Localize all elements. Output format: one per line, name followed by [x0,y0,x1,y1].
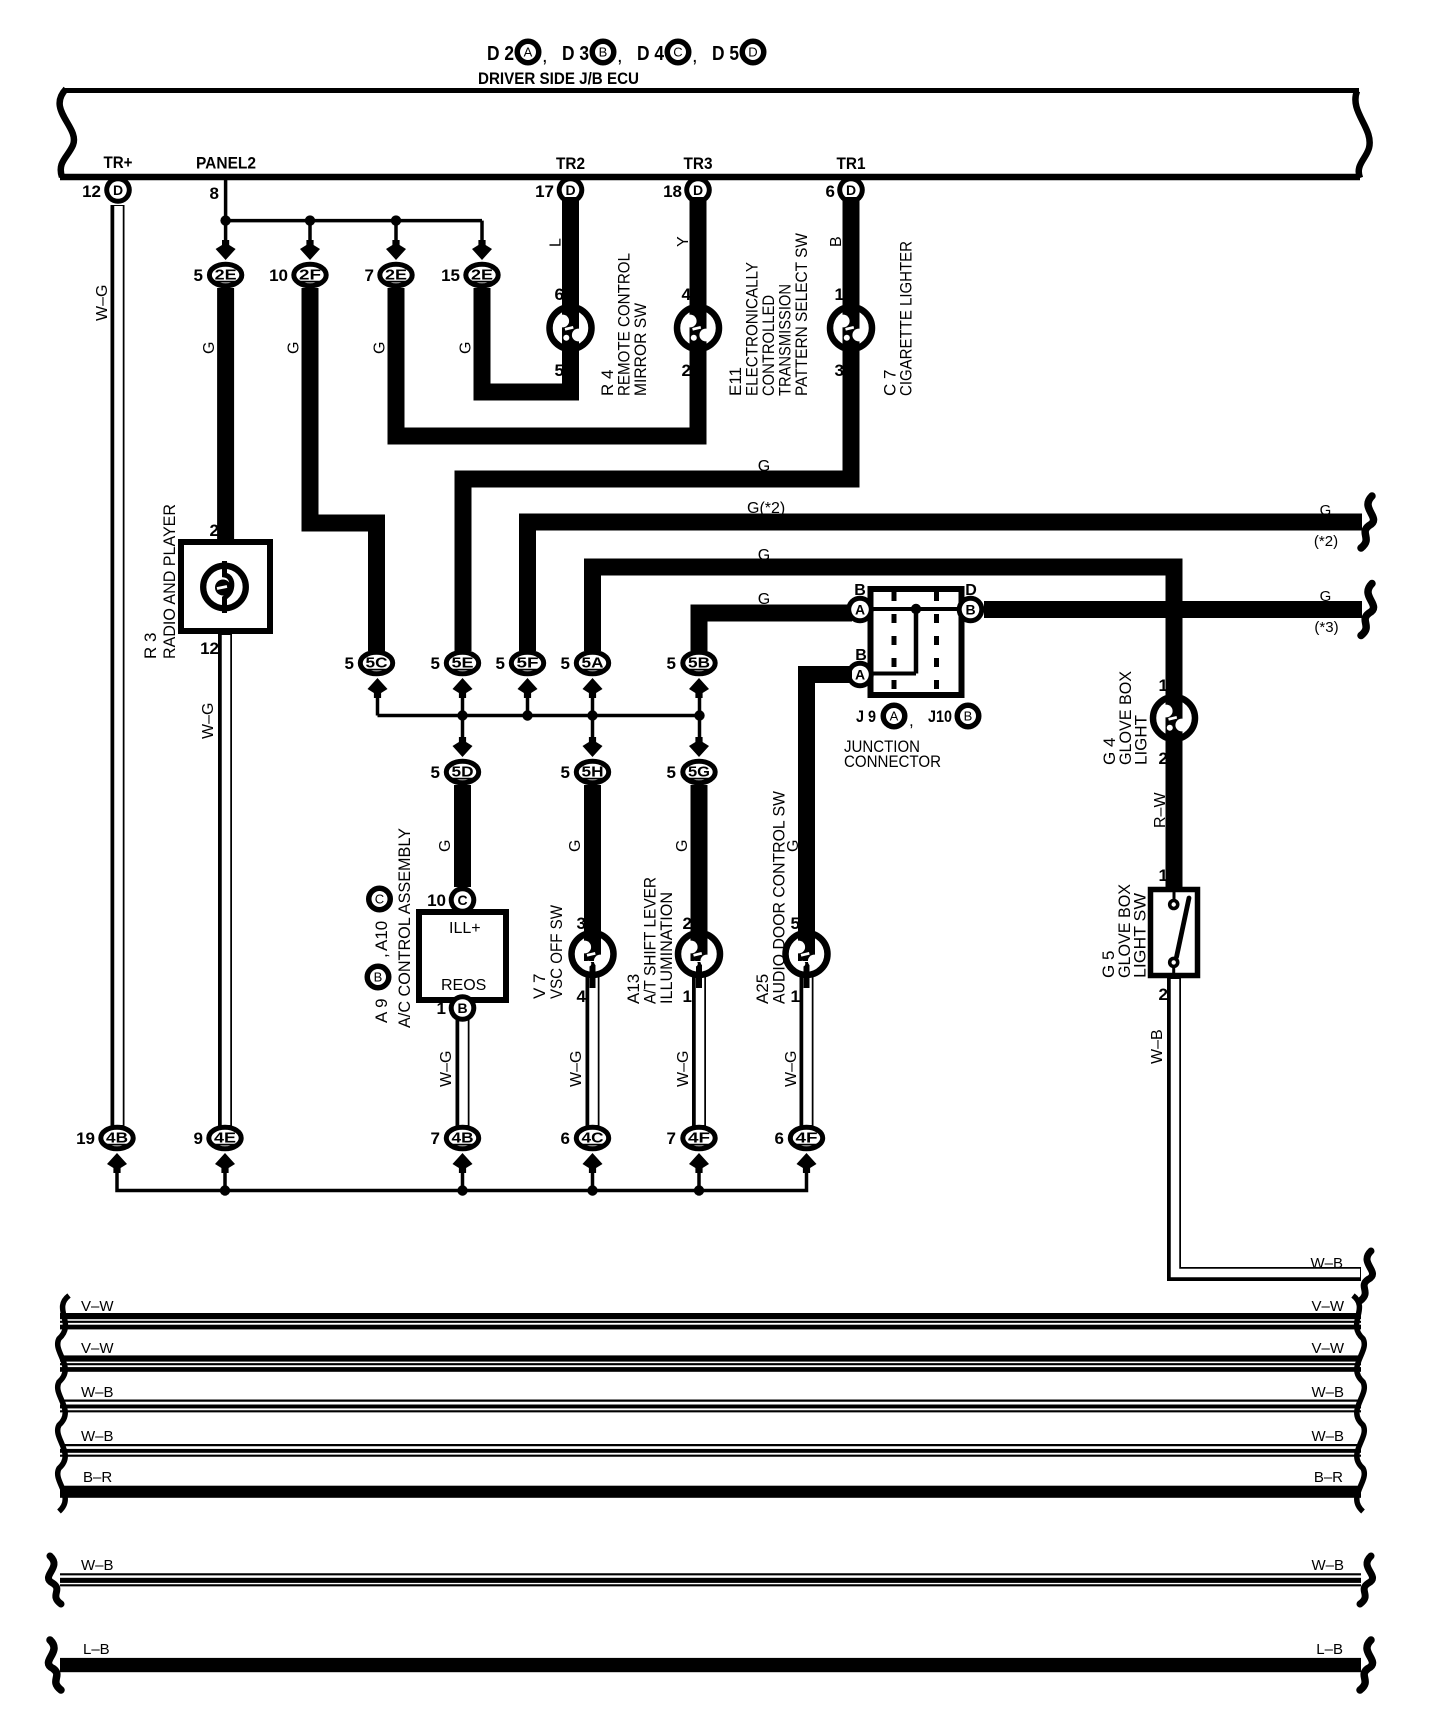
svg-text:5: 5 [561,654,570,673]
right break of G(*2) wire [1361,496,1374,548]
svg-text:4: 4 [682,285,692,304]
wire label B-R row5 left [83,1469,112,1486]
label A25 AUDIO DOOR CONTROL SW [753,791,789,1004]
wire from R4 pin5 to 15 2E [482,288,571,392]
wire label W-B row4 left [81,1428,114,1445]
pin 2 of A13 [683,914,692,933]
svg-text:6: 6 [561,1129,570,1148]
pin 6 of R4 [555,285,564,304]
svg-text:5: 5 [496,654,505,673]
wire label L-B row7 right [1316,1641,1343,1658]
label A/C CONTROL ASSEMBLY [395,828,414,1028]
bulb G4 glove box light [1153,692,1195,744]
svg-text:A/C CONTROL ASSEMBLY: A/C CONTROL ASSEMBLY [395,828,414,1028]
svg-text:D 4: D 4 [637,43,665,65]
svg-text:ILL+: ILL+ [449,920,481,937]
svg-text:12: 12 [200,639,219,658]
DRIVER SIDE J/B ECU box (band with torn ends) [60,89,1370,178]
connector 9 4E [194,1127,242,1149]
pin 1 B of A/C assembly [437,994,477,1022]
svg-text:W–B: W–B [1310,1255,1343,1272]
wire color label R-W [1152,792,1169,828]
left break of wire bundle rows1-5 [58,1296,69,1512]
wire G from 5A to glove box light [593,567,1175,696]
wire R-W from G4 to G5 [1166,740,1183,889]
wire G from C7 pin3 to 5E [463,345,851,651]
junction dot bottom bus 4B [457,1185,467,1195]
connector 19 4B [76,1127,133,1149]
connector 7 2E [365,264,413,286]
svg-text:A: A [855,602,865,618]
bus stub down to 5H [583,716,603,758]
wire color label G at right (*2) [1314,502,1338,550]
svg-text:17: 17 [535,182,554,201]
label C7 CIGARETTE LIGHTER [881,241,916,396]
svg-text:5: 5 [345,654,354,673]
svg-text:15: 15 [441,266,460,285]
wire Y from TR3 to E11 [690,197,707,310]
pin 10 C of A/C assembly [427,886,476,914]
connector 7 4B [431,1127,479,1149]
svg-text:G: G [674,840,691,852]
svg-text:TR3: TR3 [684,154,713,173]
svg-text:1: 1 [437,999,446,1018]
label A9 B A10 C rotated [367,888,391,1023]
wire color label Y (TR3 column) [675,236,692,247]
band pin 6 D (TR1) [826,176,865,204]
svg-text:10: 10 [269,266,288,285]
svg-text:CONNECTOR: CONNECTOR [844,752,941,771]
svg-text:TR2: TR2 [556,154,585,173]
svg-text:W–B: W–B [1311,1384,1344,1401]
connector 6 4F [775,1127,823,1149]
label V7 VSC OFF SW [530,905,566,999]
svg-text:10: 10 [427,891,446,910]
pin 5 of R4 [555,361,564,380]
svg-text:C: C [375,892,384,907]
band pin TR2 label [556,154,585,173]
svg-text:MIRROR SW: MIRROR SW [631,303,650,396]
bottom thin bus wire [117,1169,807,1191]
svg-text:RADIO AND PLAYER: RADIO AND PLAYER [160,504,179,659]
svg-text:B: B [965,602,975,618]
wire W-B from G5 to right edge [1174,978,1361,1274]
arrow into 5E [453,678,473,698]
arrow into 7 4B [453,1153,473,1173]
svg-text:D: D [565,182,575,198]
bulb A25 audio door control sw [786,928,828,988]
svg-text:B: B [828,236,845,247]
wire V-W (row1) [60,1313,1361,1329]
label G5 GLOVE BOX LIGHT SW [1099,884,1150,978]
bus stub down to 5D [453,716,473,758]
wire color label G (A13 col) [674,840,691,852]
band pin TR3 label [684,154,713,173]
switch G5 glove box light sw [1151,890,1198,976]
pin 1 of G4 [1159,676,1168,695]
wire from E11 pin2 to 7 2E [396,288,698,436]
svg-text:7: 7 [667,1129,676,1148]
bus stub 7 4F [697,1169,701,1191]
pin 4 of V7 [577,987,587,1006]
svg-text:LIGHT: LIGHT [1132,715,1151,765]
svg-text:A 9: A 9 [372,998,391,1023]
label J9 A J10 B [856,705,979,730]
bus stub 7 4B [461,1169,465,1191]
label E11 ELECTRONICALLY CONTROLLED TRANSMISSION PATTERN SELECT SW [726,233,811,396]
svg-text:TR+: TR+ [104,153,133,172]
junction dot PANEL2/2E [220,215,230,225]
junction dot bottom bus 4C [587,1185,597,1195]
thin bus wire linking 5C 5E 5F 5A 5B [378,694,700,716]
svg-text:1: 1 [791,987,800,1006]
svg-text:W–G: W–G [783,1051,800,1087]
svg-text:V–W: V–W [1311,1340,1344,1357]
wire stub to 5 2E [216,221,236,260]
wire color label G (5B wire) [758,591,770,608]
wire G from 5B to junction connector A [699,613,852,651]
band pin 8 (PANEL2) [210,184,219,203]
band pin 17 D (TR2) [535,176,584,204]
connector 5 2E [194,264,242,286]
svg-text:AUDIO DOOR CONTROL SW: AUDIO DOOR CONTROL SW [770,791,789,1004]
bulb A13 A/T shift lever illumination [678,928,720,988]
svg-text:B: B [599,45,608,60]
bus stub 6 4C [591,1169,595,1191]
wire color label G (2E col) [201,342,218,354]
arrow into 5F [518,678,538,698]
arrow into 19 4B [107,1153,127,1173]
wire label V-W row2 left [81,1340,114,1357]
svg-text:W–G: W–G [94,285,111,321]
svg-text:A: A [890,709,899,724]
connector 5 5D [431,761,479,783]
wire G(*3) from junction B to right edge [984,601,1362,618]
svg-text:C: C [673,45,682,60]
left break of W-B row6 [48,1556,61,1604]
svg-text:,: , [692,45,698,67]
wire G from 5D to A/C assembly [454,785,471,887]
connector 6 4C [561,1127,609,1149]
pin 12 of R3 [200,639,219,658]
band pin TR+ label [104,153,133,172]
pin 3 of C7 [835,361,844,380]
wire label W-B row6 left [81,1557,114,1574]
svg-text:PANEL2: PANEL2 [196,154,256,173]
wire W-G from A25 to 6 4F [807,972,808,1126]
svg-text:7: 7 [431,1129,440,1148]
svg-text:5: 5 [667,654,676,673]
svg-text:G: G [201,342,218,354]
band pin TR1 label [837,154,866,173]
junction dot bottom bus 4E [220,1185,230,1195]
wire color label G (V7 col) [567,840,584,852]
junction dot PANEL2/2E(7) [391,215,401,225]
svg-text:G(*2): G(*2) [747,500,785,517]
wire W-G from R3 pin12 to 9 4E [225,634,226,1126]
pin 3 of V7 [577,914,586,933]
pin 1 of A25 [791,987,800,1006]
bulb E11 pattern select sw illumination [677,302,719,354]
junction pin A bottom (B) [846,647,874,688]
svg-text:G: G [567,840,584,852]
svg-text:J 9: J 9 [856,707,876,726]
svg-text:B: B [457,1000,467,1016]
svg-text:5: 5 [194,266,203,285]
svg-text:G: G [758,547,770,564]
radio R3 box with bulb [181,542,270,631]
svg-text:,: , [372,953,391,958]
wire stub to 10 2F [300,221,320,260]
svg-text:DRIVER SIDE J/B ECU: DRIVER SIDE J/B ECU [478,69,639,88]
svg-text:W–B: W–B [1149,1029,1166,1064]
wire color label G (A25 column) [785,840,802,852]
svg-text:2: 2 [1159,985,1168,1004]
svg-text:5: 5 [561,763,570,782]
svg-text:B–R: B–R [1314,1469,1343,1486]
svg-text:W–B: W–B [81,1428,114,1445]
svg-text:(*3): (*3) [1314,619,1338,636]
bulb C7 cigarette lighter illumination [830,302,872,354]
wire label V-W row1 left [81,1298,114,1315]
svg-text:D 3: D 3 [562,43,589,65]
junction dot bottom bus 4F [694,1185,704,1195]
left break of L-B row7 [48,1640,61,1690]
svg-text:W–G: W–G [200,703,217,739]
svg-text:5: 5 [431,654,440,673]
bus stub down to 5G [689,716,709,758]
svg-text:(*2): (*2) [1314,533,1338,550]
label JUNCTION CONNECTOR [844,737,941,771]
wire label W-B row6 right [1311,1557,1344,1574]
svg-text:G: G [458,342,475,354]
wire color label G (C7 wire) [758,458,770,475]
svg-text:19: 19 [76,1129,95,1148]
svg-text:CIGARETTE LIGHTER: CIGARETTE LIGHTER [897,241,916,396]
wire color label G (5A wire) [758,547,770,564]
junction connector box [861,589,962,695]
bus stub 9 4E [223,1169,227,1191]
wire color label W-G (4F2 col) [783,1051,800,1087]
svg-text:4: 4 [577,987,587,1006]
svg-text:D 2: D 2 [487,43,514,65]
svg-text:G: G [286,342,303,354]
pin 2 of R3 [210,521,219,540]
label DRIVER SIDE J/B ECU [478,69,639,88]
wire stub to 7 2E [386,221,406,260]
right break of wire bundle rows1-5 [1353,1296,1364,1512]
connector 15 2E [441,264,498,286]
wire label W-B row3 right [1311,1384,1344,1401]
wire W-G from A/C pin1 to 7 4B [463,1019,464,1126]
pin 5 of A25 [791,914,800,933]
label R3 RADIO AND PLAYER [141,504,179,659]
svg-text:6: 6 [826,182,835,201]
wire G from junction A to A25 [807,675,853,933]
wire label V-W row2 right [1311,1340,1344,1357]
wire color label G (15-2E col) [458,342,475,354]
svg-text:1: 1 [1159,676,1168,695]
junction dot bus/5F [522,710,532,720]
junction dot PANEL2/2F [305,215,315,225]
band pin PANEL2 label [196,154,256,173]
svg-text:18: 18 [663,182,682,201]
connector 5 5B [667,652,716,674]
arrow into 5B [689,678,709,698]
svg-text:1: 1 [1159,866,1168,885]
connector 5 5A [561,652,609,674]
band pin 18 D (TR3) [663,176,712,204]
arrow into 6 4F [797,1153,817,1173]
svg-text:1: 1 [835,285,844,304]
right break of L-B row7 [1360,1640,1373,1690]
arrow into 9 4E [215,1153,235,1173]
pin 2 of G4 [1159,749,1168,768]
band pin 12 D (TR+) [82,176,132,204]
svg-text:W–B: W–B [1311,1428,1344,1445]
svg-text:G: G [758,591,770,608]
svg-text:Y: Y [675,236,692,247]
svg-text:PATTERN SELECT SW: PATTERN SELECT SW [792,233,811,396]
connector 5 5H [561,761,609,783]
svg-text:L: L [548,238,565,247]
wire color label G (7-2E col) [372,342,389,354]
wire W-B (row3) [60,1401,1361,1412]
svg-text:W–B: W–B [1311,1557,1344,1574]
wire label B-R row5 right [1314,1469,1343,1486]
wire color label W-G (R3 column) [200,703,217,739]
svg-text:VSC OFF SW: VSC OFF SW [547,905,566,999]
wire color label W-G (4C col) [568,1051,585,1087]
pin 1 of G5 [1159,866,1168,885]
svg-text:R–W: R–W [1152,792,1169,828]
label R4 REMOTE CONTROL MIRROR SW [598,253,650,396]
svg-text:C: C [457,892,467,908]
svg-text:D: D [748,45,757,60]
wire color label G (2F col) [286,342,303,354]
svg-text:B: B [964,709,973,724]
connector 5 5C [345,652,393,674]
svg-text:TR1: TR1 [837,154,866,173]
wire color label G (A/C col) [437,840,454,852]
junction dot bus/5E [457,710,467,720]
svg-text:W–G: W–G [438,1051,455,1087]
label A13 A/T SHIFT LEVER ILLUMINATION [624,877,676,1004]
svg-text:9: 9 [194,1129,203,1148]
right break of W-B row6 [1360,1556,1373,1604]
wire V-W (row2) [60,1355,1361,1371]
wire B-R (row5) [60,1486,1361,1498]
svg-text:G: G [1320,502,1332,519]
wire PANEL2 horizontal bus [226,219,482,223]
svg-text:5: 5 [431,763,440,782]
right break of G5 W-B wire [1360,1251,1373,1301]
connector 5 5E [431,652,479,674]
svg-text:A: A [855,667,865,683]
svg-text:B–R: B–R [83,1469,112,1486]
svg-text:8: 8 [210,184,219,203]
svg-text:,: , [909,711,914,730]
wire color label W-G (4F col) [675,1051,692,1087]
label G4 GLOVE BOX LIGHT [1100,671,1151,765]
svg-text:V–W: V–W [81,1298,114,1315]
svg-text:G: G [758,458,770,475]
svg-text:D: D [693,182,703,198]
wire label W-B row4 right [1311,1428,1344,1445]
arrow into 5C [368,678,388,698]
wire from PANEL2 pin 8 down [224,180,228,221]
connector 5 5F [496,652,544,674]
wire color label B (TR1 column) [828,236,845,247]
wire W-B (row6) [60,1574,1361,1585]
wire G(*2) from 5F to right edge [528,522,1363,651]
junction dot bus/5B [694,710,704,720]
wire W-B (row4) [60,1445,1361,1456]
wire W-G from A13 to 7 4F [699,972,700,1126]
pin 1 of C7 [835,285,844,304]
bulb V7 VSC off sw [572,928,614,988]
svg-text:V–W: V–W [1311,1298,1344,1315]
A/C control assembly box [419,912,506,1000]
svg-text:G: G [437,840,454,852]
connector 5 5G [667,761,716,783]
svg-text:L–B: L–B [1316,1641,1343,1658]
pin 2 of E11 [682,361,691,380]
svg-text:6: 6 [775,1129,784,1148]
svg-text:J10: J10 [928,707,952,726]
svg-text:6: 6 [555,285,564,304]
svg-text:7: 7 [365,266,374,285]
svg-text:R 3: R 3 [141,633,160,659]
wire W-G from V7 to 6 4C [593,972,594,1126]
svg-text:V–W: V–W [81,1340,114,1357]
svg-text:W–B: W–B [81,1557,114,1574]
wire color label L (TR2 column) [548,238,565,247]
wire G from 10 2F to 5C [310,288,377,651]
right break of G(*3) wire [1361,584,1374,636]
connector 7 4F [667,1127,716,1149]
svg-text:G: G [1320,588,1332,605]
connector 10 2F [269,264,326,286]
arrow into 7 4F [689,1153,709,1173]
wire B from TR1 to C7 [843,197,860,310]
svg-text:LIGHT SW: LIGHT SW [1131,893,1150,978]
wire color label W-B (G5) [1149,1029,1166,1064]
wire stub to 15 2E [472,221,492,260]
wire G from 5 2E to R3 [217,288,234,545]
junction dot bus/5A [587,710,597,720]
svg-text:1: 1 [683,987,692,1006]
svg-text:W–B: W–B [81,1384,114,1401]
svg-text:A: A [524,45,533,60]
arrow into 5A [583,678,603,698]
wire L-B (row7) [60,1658,1361,1672]
wire color label W-G (4B col) [438,1051,455,1087]
wire G from 5G to A13 [691,785,708,932]
svg-text:W–G: W–G [675,1051,692,1087]
bulb R4 remote control mirror sw [550,302,592,354]
svg-text:REOS: REOS [441,977,486,994]
wire label L-B row7 left [83,1641,110,1658]
wire W-G from TR+ 12D down to 19 4B [118,205,119,1126]
wire G from 5H to V7 [584,785,601,932]
svg-text:L–B: L–B [83,1641,110,1658]
svg-text:A10: A10 [372,921,391,951]
svg-text:12: 12 [82,182,101,201]
pin 4 of E11 [682,285,692,304]
pin 2 of G5 [1159,985,1168,1004]
wire color label G(*2) [747,500,785,517]
